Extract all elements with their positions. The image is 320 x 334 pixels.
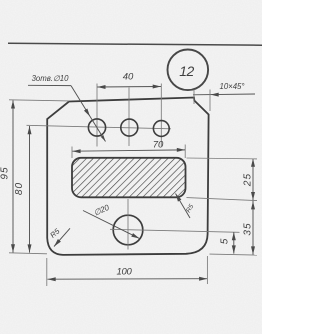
hole 3: [153, 121, 169, 137]
dim 25 right: [252, 159, 254, 201]
dim 70: [72, 150, 185, 151]
hole 2: [121, 119, 138, 136]
hole 2 vertical centerline: [128, 88, 130, 147]
bottom ext: [9, 253, 47, 254]
svg-text:25: 25: [243, 173, 254, 187]
svg-text:12: 12: [179, 63, 194, 79]
balloon circle 12: [168, 50, 209, 91]
svg-text:95: 95: [0, 166, 11, 179]
ext slot top-left up: [71, 147, 73, 159]
svg-text:10×45°: 10×45°: [219, 82, 244, 91]
svg-text:80: 80: [14, 182, 25, 195]
svg-text:40: 40: [123, 72, 134, 83]
ext slot top right: [187, 157, 258, 160]
dim 100: [48, 278, 208, 281]
svg-text:35: 35: [243, 222, 254, 235]
ext plate bottom right: [210, 254, 258, 255]
ext slot top-right up: [184, 145, 186, 159]
chamfer ext lines: [193, 90, 195, 105]
dim 5: [233, 232, 235, 254]
top ext: [9, 100, 69, 101]
hole 1 vertical centerline / extension: [96, 84, 98, 147]
circle horizontal centerline + ext to 5-dim: [110, 229, 240, 232]
ext line right edge down: [206, 256, 208, 284]
ext line left edge down: [46, 258, 48, 286]
hole centerline horizontal: [27, 125, 172, 129]
sheet border line (top): [8, 43, 262, 45]
circle vertical centerline: [127, 199, 129, 250]
dim 80: [29, 126, 31, 253]
ext slot bottom right: [187, 198, 258, 201]
hole 1: [88, 119, 105, 136]
svg-text:5: 5: [220, 238, 231, 244]
plate outline: [47, 98, 208, 255]
svg-text:70: 70: [153, 140, 164, 151]
svg-text:100: 100: [117, 267, 133, 278]
big circle d20: [113, 215, 143, 245]
dim 95: [12, 100, 14, 252]
hole 3 vertical centerline / extension: [160, 84, 162, 147]
slot (hatched): [72, 158, 186, 198]
svg-text:3отв.∅10: 3отв.∅10: [32, 74, 70, 83]
dim 35 right: [252, 200, 254, 254]
chamfer dim 10x45: [193, 93, 255, 96]
dim 40: [97, 86, 161, 89]
